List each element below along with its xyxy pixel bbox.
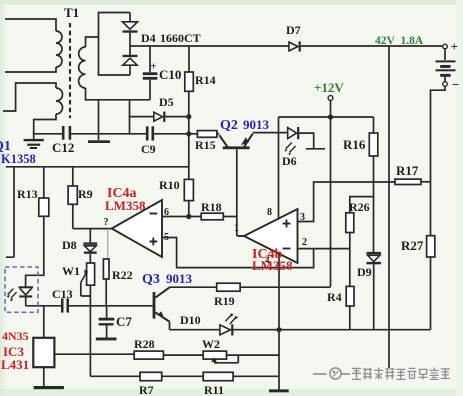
svg-text:R11: R11	[204, 383, 224, 396]
svg-text:?: ?	[104, 217, 109, 228]
svg-text:C7: C7	[116, 314, 132, 329]
svg-text:R13: R13	[17, 187, 38, 201]
svg-text:W2: W2	[202, 337, 220, 351]
svg-text:+12V: +12V	[314, 80, 344, 95]
svg-text:T1: T1	[64, 5, 79, 20]
svg-text:Q2: Q2	[220, 118, 238, 133]
svg-text:+: +	[451, 39, 458, 54]
svg-text:C12: C12	[52, 140, 74, 155]
svg-text:R15: R15	[195, 138, 216, 152]
svg-text:8: 8	[267, 207, 272, 218]
svg-text:D8: D8	[62, 238, 77, 252]
svg-text:R14: R14	[195, 73, 216, 87]
svg-text:3: 3	[300, 212, 305, 223]
svg-text:D7: D7	[286, 23, 301, 37]
svg-text:R10: R10	[159, 178, 180, 192]
svg-text:D10: D10	[180, 313, 201, 327]
svg-text:R7: R7	[139, 383, 154, 396]
svg-text:K1358: K1358	[1, 152, 36, 166]
svg-text:R19: R19	[214, 294, 235, 308]
svg-text:R22: R22	[112, 268, 133, 282]
svg-text:9013: 9013	[243, 117, 270, 132]
svg-text:R18: R18	[201, 200, 222, 214]
svg-text:D5: D5	[159, 95, 174, 109]
svg-text:42V 1.8A: 42V 1.8A	[375, 35, 424, 47]
svg-text:4N35: 4N35	[2, 329, 29, 343]
svg-text:R4: R4	[327, 290, 342, 304]
svg-text:LM358: LM358	[105, 198, 146, 213]
svg-text:C13: C13	[52, 287, 73, 301]
svg-text:5: 5	[164, 232, 169, 243]
svg-text:LM358: LM358	[252, 258, 293, 273]
svg-text:R27: R27	[401, 238, 424, 253]
svg-text:C9: C9	[141, 142, 156, 156]
svg-text:9013: 9013	[166, 271, 193, 286]
svg-text:−: −	[452, 77, 459, 92]
svg-text:6: 6	[164, 207, 169, 218]
svg-text:R17: R17	[396, 163, 419, 178]
svg-text:1: 1	[234, 223, 239, 234]
svg-text:W1: W1	[62, 264, 80, 278]
svg-text:1660CT: 1660CT	[160, 31, 201, 45]
svg-text:R9: R9	[78, 187, 93, 201]
svg-text:D9: D9	[357, 265, 372, 279]
svg-text:Q3: Q3	[142, 272, 160, 287]
svg-text:R16: R16	[343, 137, 366, 152]
svg-text:C10: C10	[159, 67, 181, 82]
svg-text:D6: D6	[282, 154, 297, 168]
svg-text:+: +	[150, 61, 156, 73]
svg-text:2: 2	[302, 237, 307, 248]
svg-text:D4: D4	[141, 31, 156, 45]
svg-text:R26: R26	[349, 200, 370, 214]
svg-text:R28: R28	[134, 337, 155, 351]
svg-text:L431: L431	[1, 357, 29, 372]
